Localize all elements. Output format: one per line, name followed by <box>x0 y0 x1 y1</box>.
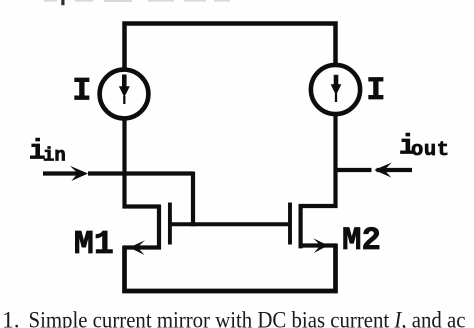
svg-text:out: out <box>411 139 450 162</box>
svg-text:I: I <box>366 72 385 109</box>
current source I2 (right) <box>311 65 360 114</box>
svg-text:M1: M1 <box>74 226 114 264</box>
scan remnants of cropped text line above figure <box>44 0 230 2</box>
wire: i_in input lead <box>43 171 193 175</box>
svg-text:in: in <box>43 144 66 166</box>
wire: bottom ground rail joining M1 source and M2 source <box>125 244 336 291</box>
wire: top supply rail with corner drops <box>125 24 336 71</box>
svg-text:Simple current mirror with DC: Simple current mirror with DC bias curre… <box>29 306 466 328</box>
wire: i_out output lead <box>338 168 413 172</box>
svg-text:I: I <box>72 73 91 110</box>
transistor M1 (diode-connected NMOS, left) <box>123 203 170 256</box>
transistor M2 (mirror NMOS, right) <box>290 203 337 254</box>
current source I1 (left) <box>100 70 149 119</box>
arrowhead on i_out lead (pointing left into node) <box>374 163 392 178</box>
wire: left rail from current source I down to M1 drain <box>122 118 126 208</box>
svg-text:M2: M2 <box>342 222 381 259</box>
wire: gate bus joining M1 gate to M2 gate <box>168 222 289 226</box>
svg-text:1.: 1. <box>2 308 20 328</box>
wire: right rail from current source I down through i_out node to M2 drain <box>333 115 337 209</box>
wire: drop from i_in node down to gate bus (diode connection of M1) <box>191 172 195 227</box>
arrowhead on i_in lead (pointing right into node) <box>70 166 88 181</box>
